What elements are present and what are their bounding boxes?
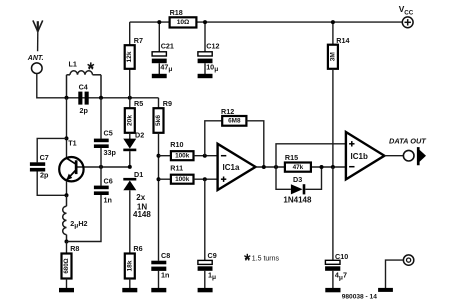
capacitor C4 bbox=[78, 92, 88, 105]
wire IC1a output row bbox=[256, 166, 346, 168]
node junction R12/inv input bbox=[203, 154, 207, 158]
node junction main/L1 right bbox=[99, 96, 103, 100]
resistor R6 bbox=[125, 254, 135, 279]
op-amp IC1a bbox=[218, 144, 256, 190]
wire R9 column down bbox=[158, 133, 160, 261]
svg-text:100k: 100k bbox=[175, 152, 190, 159]
svg-text:6M8: 6M8 bbox=[228, 118, 241, 125]
transistor T1 bbox=[59, 157, 83, 181]
diode D3 bbox=[276, 167, 291, 189]
wire C8 to ground bbox=[158, 271, 160, 289]
capacitor C12 bbox=[198, 52, 212, 56]
terminal ANT circle bbox=[32, 63, 43, 74]
wire C5 to base node bbox=[100, 148, 102, 167]
resistor R5 bbox=[129, 98, 131, 108]
node junction D2/D1/base bbox=[128, 165, 132, 169]
svg-text:C8: C8 bbox=[161, 251, 170, 260]
svg-text:1.5 turns: 1.5 turns bbox=[252, 256, 280, 263]
ground C21 bbox=[152, 74, 167, 78]
op-amp IC1b bbox=[346, 132, 385, 179]
wire antenna stem to main node bbox=[36, 74, 38, 99]
wire R8 to ground bbox=[66, 279, 68, 289]
svg-text:DATA OUT: DATA OUT bbox=[389, 137, 427, 146]
svg-text:3M: 3M bbox=[329, 52, 336, 62]
node junction rail/C12 bbox=[203, 20, 207, 24]
capacitor C6 bbox=[100, 167, 102, 186]
ground R6 bbox=[122, 288, 137, 292]
capacitor C5 bbox=[94, 139, 109, 143]
svg-text:R15: R15 bbox=[285, 153, 298, 162]
svg-text:IC1b: IC1b bbox=[351, 152, 368, 161]
svg-text:T1: T1 bbox=[68, 139, 76, 148]
svg-text:47k: 47k bbox=[293, 164, 304, 171]
svg-text:D2: D2 bbox=[135, 131, 144, 140]
svg-text:20k: 20k bbox=[126, 115, 133, 126]
node junction R14/C10/inv input bbox=[331, 165, 335, 169]
wire C6 bottom to emitter node bbox=[67, 195, 102, 242]
svg-text:12k: 12k bbox=[126, 51, 133, 62]
node junction emitter/C7 bbox=[65, 193, 69, 197]
diode D2 bbox=[129, 133, 131, 139]
wire C10 column bbox=[332, 167, 334, 260]
svg-text:R11: R11 bbox=[170, 163, 183, 172]
wire C21 column bbox=[158, 22, 160, 52]
wire C5 column bbox=[100, 98, 102, 139]
svg-text:C7: C7 bbox=[40, 153, 49, 162]
wire top rail bbox=[130, 21, 403, 23]
wire C9 column bbox=[204, 179, 206, 260]
wire C10 to ground bbox=[332, 271, 334, 289]
ground C10 bbox=[325, 288, 340, 292]
svg-text:R7: R7 bbox=[134, 36, 143, 45]
node junction rail/C21 bbox=[157, 20, 161, 24]
svg-text:R18: R18 bbox=[170, 8, 183, 17]
svg-text:R12: R12 bbox=[221, 107, 234, 116]
svg-text:C5: C5 bbox=[104, 129, 113, 138]
terminal VCC bbox=[402, 17, 413, 28]
antenna bbox=[33, 20, 43, 51]
svg-text:R6: R6 bbox=[133, 244, 142, 253]
node junction main/L1 left bbox=[65, 96, 69, 100]
svg-text:C6: C6 bbox=[104, 177, 113, 186]
capacitor C9 bbox=[198, 260, 212, 264]
svg-text:1N4148: 1N4148 bbox=[283, 195, 312, 204]
svg-text:100k: 100k bbox=[175, 176, 190, 183]
wire noninv branch to IC1b bbox=[276, 144, 346, 167]
svg-text:R8: R8 bbox=[70, 244, 79, 253]
svg-text:C21: C21 bbox=[161, 41, 174, 50]
wire C12 column bbox=[204, 22, 206, 52]
ground C9 bbox=[198, 288, 213, 292]
node junction rail/R14 bbox=[331, 20, 335, 24]
wire R6 to ground bbox=[129, 279, 131, 289]
node junction R9/R10 bbox=[157, 154, 161, 158]
wire T1 collector column bbox=[66, 98, 68, 158]
node junction emitter/R8/C6 bbox=[65, 240, 69, 244]
svg-text:5k6: 5k6 bbox=[155, 115, 162, 126]
svg-text:IC1a: IC1a bbox=[223, 163, 240, 172]
svg-text:R9: R9 bbox=[163, 99, 172, 108]
wire IC1b output bbox=[384, 155, 403, 157]
star mark at L1 bbox=[88, 62, 94, 69]
capacitor C8 bbox=[151, 261, 166, 265]
resistor R7 bbox=[125, 45, 135, 69]
resistor R15 bbox=[285, 163, 311, 172]
node junction out/branches bbox=[274, 165, 278, 169]
node junction out/R12 bbox=[262, 165, 266, 169]
star note bbox=[244, 254, 250, 261]
node junction R9/R11 bbox=[157, 177, 161, 181]
wire C21 to ground bbox=[158, 63, 160, 74]
wire C9 to ground bbox=[204, 271, 206, 289]
svg-text:C10: C10 bbox=[335, 252, 348, 261]
wire T1 emitter bbox=[66, 181, 68, 195]
terminal output ground bbox=[403, 255, 413, 265]
ground C12 bbox=[198, 74, 213, 78]
wire C7 branch bottom bbox=[37, 172, 66, 196]
ground output terminal bbox=[378, 288, 393, 292]
svg-text:D1: D1 bbox=[134, 170, 143, 179]
svg-text:C12: C12 bbox=[206, 41, 219, 50]
wire terminal to ground bbox=[386, 260, 404, 288]
resistor R12 bbox=[205, 121, 222, 156]
wire R14 down to IC1b input line bbox=[332, 69, 334, 167]
resistor R10 bbox=[159, 155, 171, 157]
inductor L1 bbox=[67, 71, 102, 98]
ground C8 bbox=[151, 288, 166, 292]
capacitor C7 bbox=[30, 162, 45, 166]
svg-text:980038 - 14: 980038 - 14 bbox=[342, 293, 378, 300]
svg-text:33p: 33p bbox=[104, 148, 117, 157]
node junction R15/D3 right bbox=[320, 165, 324, 169]
svg-text:680Ω: 680Ω bbox=[63, 258, 70, 273]
svg-text:C9: C9 bbox=[208, 251, 217, 260]
svg-text:2p: 2p bbox=[40, 170, 49, 179]
svg-text:2x: 2x bbox=[136, 193, 145, 202]
node junction collector/C7 branch bbox=[65, 136, 69, 140]
ground R8 bbox=[59, 288, 74, 292]
svg-text:2p: 2p bbox=[80, 106, 89, 115]
terminal DATA OUT bbox=[403, 150, 414, 161]
svg-text:10Ω: 10Ω bbox=[177, 19, 190, 26]
wire R9 top lead bbox=[158, 98, 160, 108]
svg-text:18k: 18k bbox=[126, 260, 133, 271]
wire R14 column top bbox=[332, 22, 334, 45]
node junction main/R7 bbox=[128, 96, 132, 100]
node junction C9/noninv input bbox=[203, 177, 207, 181]
wire C7 branch top bbox=[37, 138, 66, 162]
resistor R18 bbox=[170, 17, 197, 27]
svg-text:C4: C4 bbox=[79, 82, 88, 91]
diode D1 bbox=[123, 178, 136, 181]
svg-text:R14: R14 bbox=[336, 36, 349, 45]
capacitor C21 bbox=[152, 52, 166, 56]
svg-text:1n: 1n bbox=[161, 270, 169, 279]
svg-text:R5: R5 bbox=[134, 99, 143, 108]
svg-text:ANT.: ANT. bbox=[27, 55, 44, 62]
svg-text:4148: 4148 bbox=[133, 210, 151, 219]
output arrow flag bbox=[417, 147, 426, 165]
wire T1 base row bbox=[77, 166, 130, 168]
svg-text:L1: L1 bbox=[69, 60, 77, 69]
resistor R9 bbox=[154, 108, 164, 133]
wire R7 column bbox=[129, 22, 131, 45]
wire main horizontal bbox=[37, 97, 159, 99]
resistor R8 bbox=[66, 242, 68, 254]
wire C12 to ground bbox=[204, 63, 206, 74]
svg-text:R10: R10 bbox=[170, 140, 183, 149]
resistor R11 bbox=[159, 178, 171, 180]
node junction base/C5C6 bbox=[99, 165, 103, 169]
inductor 2uH2 bbox=[63, 195, 67, 241]
resistor R14 bbox=[328, 45, 338, 69]
svg-text:D3: D3 bbox=[293, 175, 302, 184]
capacitor C10 bbox=[325, 260, 340, 264]
svg-text:1n: 1n bbox=[104, 195, 112, 204]
